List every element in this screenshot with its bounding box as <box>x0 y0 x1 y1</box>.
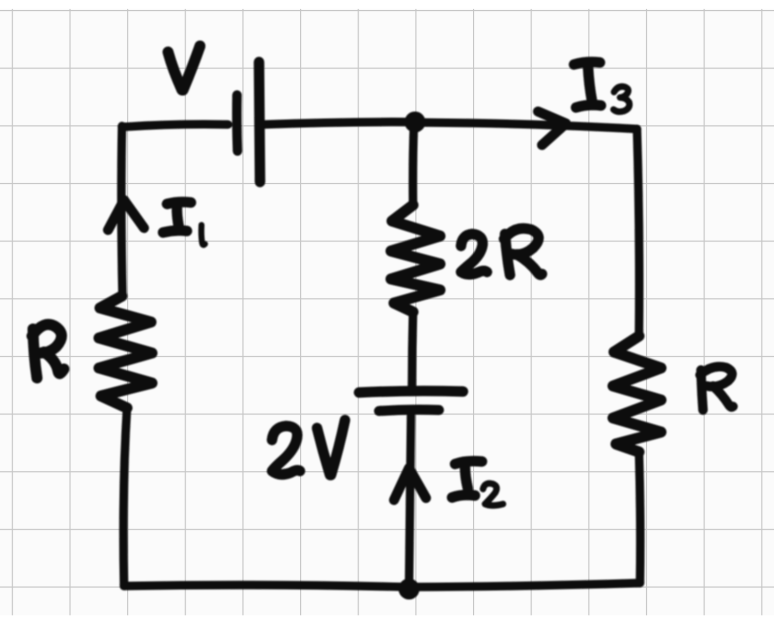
wire top-right (node A to top-right corner) <box>424 123 637 130</box>
wire bottom (bottom-left corner to bottom-right corner) <box>124 583 640 587</box>
wire middle upper (node A to resistor 2R) <box>413 122 414 205</box>
wire left side upper (top-left corner down to resistor R) <box>121 126 122 296</box>
wire middle (resistor 2R to battery 2V) <box>412 312 413 387</box>
wire right side upper (top-right corner to resistor R right) <box>637 129 639 336</box>
wire middle lower (battery 2V to node B) <box>409 416 411 589</box>
battery 2V <box>359 391 463 411</box>
label R (left) <box>32 324 64 378</box>
label I1 <box>163 202 205 245</box>
label I3 <box>574 62 629 112</box>
label 2V <box>272 420 345 475</box>
label V <box>168 46 200 90</box>
current arrow I3 <box>538 112 566 146</box>
node A (top junction) <box>405 112 426 133</box>
wire right side lower (resistor R right to bottom-right corner) <box>639 452 640 583</box>
resistor R (left) <box>99 296 152 408</box>
current arrow I2 <box>394 468 426 500</box>
battery V <box>237 62 260 182</box>
wire top-left (battery V left lead) <box>122 124 228 127</box>
label I2 <box>452 461 503 505</box>
resistor R (right) <box>613 336 661 452</box>
label 2R <box>461 228 542 275</box>
wire top-middle (battery V to node A) <box>263 122 413 125</box>
label R (right) <box>700 367 733 410</box>
resistor 2R <box>391 205 440 312</box>
wire left side lower (resistor R to bottom-left corner) <box>123 408 127 586</box>
current arrow I1 <box>108 200 144 230</box>
node B (bottom junction) <box>399 579 420 600</box>
